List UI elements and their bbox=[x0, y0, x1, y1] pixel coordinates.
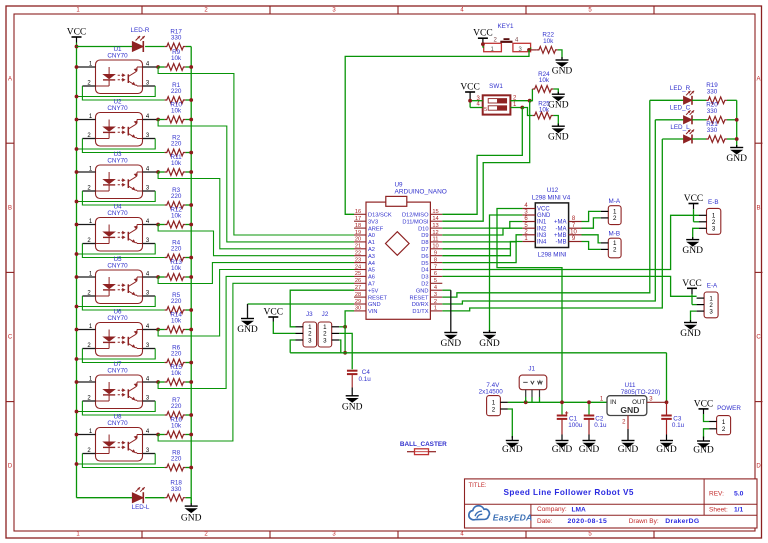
svg-text:13: 13 bbox=[432, 223, 438, 229]
svg-text:B: B bbox=[756, 206, 760, 212]
svg-text:CNY70: CNY70 bbox=[107, 263, 128, 270]
wire U1 pin3 loop to VCC bus bbox=[143, 85, 156, 87]
motor driver U12 L298 MINI V4 bbox=[522, 187, 581, 259]
svg-text:-MB: -MB bbox=[556, 240, 567, 246]
node C2 junction bbox=[587, 400, 591, 404]
node R6 junction on pull-up bus bbox=[189, 361, 193, 365]
svg-text:Date:: Date: bbox=[537, 518, 553, 525]
wire U3 pin2 loop to resistor R3 bbox=[82, 190, 95, 192]
ground at U11 bbox=[622, 440, 635, 442]
svg-text:M-A: M-A bbox=[609, 198, 621, 205]
wire sensor U7 signal to Arduino A6 bbox=[158, 276, 354, 388]
wire U4 pin1 from VCC bus bbox=[77, 224, 96, 226]
connector E-A bbox=[687, 287, 697, 289]
svg-text:2020-08-15: 2020-08-15 bbox=[568, 518, 608, 525]
indicator LED_R bbox=[650, 99, 684, 101]
svg-text:IN: IN bbox=[610, 399, 616, 406]
node U8 pin3-loop junction on VCC bus bbox=[75, 462, 79, 466]
wire U12 VCC to battery node bbox=[497, 209, 562, 403]
power net VCC (top-left) bbox=[72, 36, 82, 38]
wire U2 pin1 from VCC bus bbox=[77, 119, 96, 121]
wire SW1 pin2 to R24 and D12 bbox=[510, 100, 529, 102]
svg-text:220: 220 bbox=[171, 141, 182, 148]
svg-text:LED_L: LED_L bbox=[670, 124, 690, 131]
wire KEY1 to R22 bbox=[530, 48, 532, 50]
wire U4 pin4 to node bbox=[143, 224, 159, 226]
optocoupler U8 CNY70 bbox=[87, 414, 150, 461]
svg-text:7: 7 bbox=[434, 264, 437, 270]
node U11 OUT junction bbox=[665, 400, 669, 404]
ground at R25 bbox=[552, 125, 565, 127]
svg-text:21: 21 bbox=[355, 244, 361, 250]
voltage regulator U11 7805(TO-220) bbox=[607, 382, 660, 416]
wire U2 pin4 to node bbox=[143, 119, 159, 121]
svg-text:E-B: E-B bbox=[708, 199, 719, 206]
capacitor C2 0.1u bbox=[588, 402, 590, 415]
EasyEDA logo bbox=[469, 506, 533, 523]
svg-text:GND: GND bbox=[548, 101, 569, 111]
svg-text:GND: GND bbox=[656, 445, 677, 455]
svg-text:D3: D3 bbox=[421, 275, 428, 281]
svg-text:10k: 10k bbox=[171, 265, 182, 272]
wire LED resistors common to ground bbox=[736, 100, 738, 147]
node R20 junction bbox=[735, 118, 739, 122]
node R10 junction on pull-up bus bbox=[189, 118, 193, 122]
wire J2 pin2 to C4 bbox=[339, 333, 352, 369]
svg-text:3: 3 bbox=[323, 337, 327, 344]
node R16 junction on pull-up bus bbox=[189, 433, 193, 437]
wire U5 pin2 loop to resistor R5 bbox=[82, 295, 95, 297]
svg-text:29: 29 bbox=[355, 299, 361, 305]
wire J1 pin to node bbox=[539, 390, 541, 397]
wire U11 GND pin to ground bbox=[627, 416, 629, 430]
wire RESET/D-pin to LED_R bbox=[442, 100, 650, 297]
svg-text:A6: A6 bbox=[368, 275, 375, 281]
node U2 pin1 junction bbox=[75, 118, 79, 122]
wire sensor U8 signal to Arduino A7 bbox=[158, 283, 354, 441]
node U3 pin1 junction bbox=[75, 170, 79, 174]
svg-text:10k: 10k bbox=[171, 213, 182, 220]
svg-text:A7: A7 bbox=[368, 282, 375, 288]
resistor R22 10k bbox=[537, 47, 558, 54]
svg-text:GND: GND bbox=[441, 339, 462, 349]
wire SW1 pin1 to R25 and D11 bbox=[510, 107, 522, 109]
ground at R24 bbox=[552, 93, 565, 95]
svg-text:J3: J3 bbox=[306, 311, 313, 318]
wire U8 pin2 loop to resistor R8 bbox=[82, 453, 95, 455]
svg-text:24: 24 bbox=[355, 264, 361, 270]
svg-text:0.1u: 0.1u bbox=[594, 422, 607, 429]
svg-text:D9: D9 bbox=[421, 233, 428, 239]
node KEY1 left junction bbox=[481, 42, 485, 46]
wire POWER pin2 to ground bbox=[704, 429, 710, 439]
resistor R13 10k bbox=[158, 276, 165, 278]
svg-text:23: 23 bbox=[355, 257, 361, 263]
svg-text:3: 3 bbox=[308, 337, 312, 344]
wire D1/TX to LED_L bbox=[442, 139, 662, 311]
resistor R19 330 bbox=[706, 97, 727, 104]
svg-text:CNY70: CNY70 bbox=[107, 53, 128, 60]
svg-text:GND: GND bbox=[368, 302, 381, 308]
svg-text:Drawn By:: Drawn By: bbox=[629, 518, 659, 525]
wire E-A pin3 to ground bbox=[691, 311, 697, 322]
svg-text:3: 3 bbox=[712, 226, 716, 233]
svg-text:7805(TO-220): 7805(TO-220) bbox=[621, 389, 660, 396]
resistor R21 330 bbox=[706, 136, 727, 143]
wire Arduino GND pin29 to ground bbox=[248, 303, 355, 305]
svg-text:26: 26 bbox=[355, 278, 361, 284]
resistor R6 220 bbox=[165, 359, 186, 366]
node U5 pin3-loop junction on VCC bus bbox=[75, 305, 79, 309]
wire +MA to M-A pin 1 bbox=[582, 211, 601, 221]
svg-text:2: 2 bbox=[613, 247, 617, 254]
wire sensor U1 signal to Arduino A0 bbox=[158, 67, 354, 235]
svg-text:10k: 10k bbox=[539, 107, 550, 114]
svg-text:220: 220 bbox=[171, 351, 182, 358]
svg-text:VCC: VCC bbox=[67, 28, 87, 38]
wire VCC to J3 pin2 bbox=[273, 322, 295, 334]
svg-text:100u: 100u bbox=[568, 422, 583, 429]
resistor R12 10k bbox=[158, 224, 165, 226]
svg-text:LED_R: LED_R bbox=[670, 85, 691, 92]
wire D7 to IN4 bbox=[442, 242, 522, 249]
node VIN rail junction bbox=[343, 351, 347, 355]
connector E-B bbox=[689, 203, 699, 205]
svg-text:J2: J2 bbox=[322, 311, 329, 318]
wire U4 pin3 loop to VCC bus bbox=[143, 243, 156, 245]
svg-text:LED_C: LED_C bbox=[670, 105, 691, 112]
svg-text:15: 15 bbox=[432, 209, 438, 215]
wire battery pin1 to node bbox=[508, 401, 607, 403]
svg-text:1: 1 bbox=[434, 306, 437, 312]
svg-text:D5: D5 bbox=[421, 261, 428, 267]
svg-text:5.0: 5.0 bbox=[734, 490, 744, 497]
svg-text:RESET: RESET bbox=[368, 295, 387, 301]
svg-text:220: 220 bbox=[171, 456, 182, 463]
svg-text:2x14500: 2x14500 bbox=[479, 389, 504, 396]
microcontroller U9 ARDUINO_NANO bbox=[354, 182, 447, 320]
resistor R14 10k bbox=[158, 329, 165, 331]
svg-text:2: 2 bbox=[722, 426, 726, 433]
resistor R17 330 bbox=[165, 43, 186, 50]
svg-text:LED-L: LED-L bbox=[132, 504, 150, 511]
svg-text:A0: A0 bbox=[368, 233, 375, 239]
wire U12 GND to ground bbox=[490, 215, 523, 332]
svg-text:2: 2 bbox=[613, 215, 617, 222]
svg-text:J1: J1 bbox=[528, 366, 535, 373]
svg-text:A: A bbox=[756, 77, 760, 83]
node J2 pin1 junction bbox=[343, 325, 347, 329]
wire D5 stub to IN4 feed bbox=[442, 242, 516, 263]
resistor R18 330 bbox=[165, 494, 186, 501]
wire SW1 pin2 down to D11/MOSI bbox=[442, 101, 529, 222]
wire J2 pin3 to 5V rail bbox=[339, 340, 341, 353]
svg-text:D11/MOSI: D11/MOSI bbox=[402, 219, 429, 225]
node R2 junction on pull-up bus bbox=[189, 151, 193, 155]
power net VCC at J3 bbox=[268, 316, 278, 318]
svg-text:U9: U9 bbox=[395, 182, 404, 189]
node U4 pin3-loop junction on VCC bus bbox=[75, 252, 79, 256]
svg-text:GND: GND bbox=[548, 133, 569, 143]
svg-text:A: A bbox=[8, 77, 12, 83]
svg-text:D7: D7 bbox=[421, 247, 428, 253]
svg-text:ARDUINO_NANO: ARDUINO_NANO bbox=[395, 189, 447, 196]
optocoupler U1 CNY70 bbox=[87, 46, 150, 93]
svg-text:VCC: VCC bbox=[460, 83, 480, 93]
svg-text:E-A: E-A bbox=[707, 283, 718, 290]
svg-text:GND: GND bbox=[416, 288, 429, 294]
node U8 pin1 junction bbox=[75, 433, 79, 437]
svg-text:220: 220 bbox=[171, 193, 182, 200]
title block bbox=[465, 479, 758, 528]
svg-text:VCC: VCC bbox=[694, 399, 714, 409]
resistor R3 220 bbox=[165, 202, 186, 209]
wire VCC to SW1 pins 3,4 bbox=[469, 101, 471, 108]
svg-text:0.1u: 0.1u bbox=[672, 422, 685, 429]
svg-text:10k: 10k bbox=[171, 370, 182, 377]
wire +5V pin27 to J3 pin1 bbox=[290, 290, 354, 327]
svg-text:IN1: IN1 bbox=[537, 220, 547, 226]
svg-text:D: D bbox=[8, 464, 13, 470]
svg-text:5: 5 bbox=[484, 107, 487, 113]
wire KEY1 to D13/SCK bbox=[345, 50, 529, 214]
svg-text:D6: D6 bbox=[421, 254, 428, 260]
svg-text:+5V: +5V bbox=[368, 288, 378, 294]
svg-text:25: 25 bbox=[355, 271, 361, 277]
svg-text:GND: GND bbox=[502, 445, 523, 455]
capacitor C1 100u bbox=[561, 402, 563, 415]
svg-text:IN3: IN3 bbox=[537, 233, 547, 239]
svg-text:+MA: +MA bbox=[554, 220, 567, 226]
node R14 junction on pull-up bus bbox=[189, 328, 193, 332]
svg-text:D1/TX: D1/TX bbox=[412, 309, 428, 315]
wire J2 pin1 to VIN net bbox=[339, 326, 345, 328]
ground at Arduino pin4 bbox=[444, 332, 457, 334]
svg-text:27: 27 bbox=[355, 285, 361, 291]
node U1 pin4 junction bbox=[156, 65, 160, 69]
svg-text:220: 220 bbox=[171, 88, 182, 95]
svg-text:GND: GND bbox=[682, 246, 703, 256]
wire sensor U2 signal to Arduino A1 bbox=[158, 120, 354, 242]
node KEY1/R22 junction bbox=[527, 48, 531, 52]
node R3 junction on pull-up bus bbox=[189, 203, 193, 207]
svg-text:D0/RX: D0/RX bbox=[412, 302, 429, 308]
node U3 pin4 junction bbox=[156, 170, 160, 174]
wire U5 pin3 loop to VCC bus bbox=[143, 295, 156, 297]
wire U7 pin4 to node bbox=[143, 381, 159, 383]
node R8 junction on pull-up bus bbox=[189, 466, 193, 470]
LED-R indicator diode bbox=[77, 46, 133, 48]
resistor R4 220 bbox=[165, 254, 186, 261]
ground at C4 bbox=[346, 395, 359, 397]
svg-text:L298 MINI V4: L298 MINI V4 bbox=[532, 194, 571, 201]
svg-text:3: 3 bbox=[709, 308, 713, 315]
resistor R10 10k bbox=[158, 119, 165, 121]
svg-text:19: 19 bbox=[355, 230, 361, 236]
svg-text:U11: U11 bbox=[624, 382, 636, 389]
wire D6 stub bbox=[442, 249, 510, 256]
wire battery pin2 to ground bbox=[508, 409, 512, 438]
svg-text:BALL_CASTER: BALL_CASTER bbox=[400, 441, 447, 448]
resistor R7 220 bbox=[165, 412, 186, 419]
svg-text:LED-R: LED-R bbox=[131, 27, 150, 34]
wire -MB to M-B pin 2 bbox=[582, 242, 601, 250]
svg-text:CNY70: CNY70 bbox=[107, 210, 128, 217]
node U3 pin3-loop junction on VCC bus bbox=[75, 200, 79, 204]
resistor R5 220 bbox=[165, 307, 186, 314]
optocoupler U4 CNY70 bbox=[87, 204, 150, 251]
svg-text:A2: A2 bbox=[368, 247, 375, 253]
capacitor C3 0.1u bbox=[666, 402, 668, 415]
svg-text:CNY70: CNY70 bbox=[107, 420, 128, 427]
svg-text:D4: D4 bbox=[421, 268, 428, 274]
svg-text:20: 20 bbox=[355, 237, 361, 243]
wire U1 pin2 loop to resistor R1 bbox=[82, 85, 95, 87]
svg-text:GND: GND bbox=[693, 446, 714, 456]
svg-text:330: 330 bbox=[707, 108, 718, 115]
wire U3 pin4 to node bbox=[143, 171, 159, 173]
wire R24 to ground bbox=[553, 89, 558, 94]
wire SW1 pin1 down to D12/MISO bbox=[442, 108, 522, 215]
svg-text:10k: 10k bbox=[171, 318, 182, 325]
wire U7 pin3 loop to VCC bus bbox=[143, 400, 156, 402]
svg-text:9: 9 bbox=[434, 251, 437, 257]
svg-text:CNY70: CNY70 bbox=[107, 158, 128, 165]
svg-text:GND: GND bbox=[479, 339, 500, 349]
wire U5 pin4 to node bbox=[143, 276, 159, 278]
node R11 junction on pull-up bus bbox=[189, 170, 193, 174]
svg-text:-MA: -MA bbox=[556, 226, 567, 232]
node U2 pin4 junction bbox=[156, 118, 160, 122]
capacitor C4 0.1u bbox=[347, 370, 358, 372]
svg-text:1: 1 bbox=[722, 419, 726, 426]
resistor R25 10k bbox=[522, 108, 532, 116]
resistor R1 220 bbox=[165, 97, 186, 104]
wire U1 pin1 from VCC bus bbox=[77, 66, 96, 68]
wire sensor U4 signal to Arduino A3 bbox=[158, 225, 354, 256]
node U7 pin1 junction bbox=[75, 380, 79, 384]
svg-text:D12/MISO: D12/MISO bbox=[402, 213, 429, 219]
node U6 pin1 junction bbox=[75, 328, 79, 332]
power net VCC at KEY1 bbox=[478, 37, 488, 39]
node U6 pin4 junction bbox=[156, 328, 160, 332]
resistor R9 10k bbox=[158, 66, 165, 68]
svg-text:3V3: 3V3 bbox=[368, 219, 378, 225]
svg-text:330: 330 bbox=[707, 89, 718, 96]
svg-text:GND: GND bbox=[618, 445, 639, 455]
wire 5V rail bbox=[290, 352, 666, 354]
wire Arduino GND pin4 to ground bbox=[442, 289, 451, 291]
optocoupler U6 CNY70 bbox=[87, 309, 150, 356]
node U8 pin4 junction bbox=[156, 433, 160, 437]
node SW1 pin1 junction bbox=[520, 106, 524, 110]
node U2 pin3-loop junction on VCC bus bbox=[75, 147, 79, 151]
resistor R24 10k bbox=[530, 89, 533, 101]
svg-text:10k: 10k bbox=[171, 108, 182, 115]
wire U7 pin1 from VCC bus bbox=[77, 381, 96, 383]
optocoupler U5 CNY70 bbox=[87, 256, 150, 303]
wire VCC to POWER pin1 bbox=[704, 414, 710, 422]
svg-text:28: 28 bbox=[355, 292, 361, 298]
svg-text:GND: GND bbox=[726, 154, 747, 164]
svg-text:CNY70: CNY70 bbox=[107, 315, 128, 322]
svg-text:A5: A5 bbox=[368, 268, 375, 274]
svg-text:POWER: POWER bbox=[717, 405, 741, 412]
svg-text:IN4: IN4 bbox=[537, 240, 547, 246]
svg-text:12: 12 bbox=[432, 230, 438, 236]
connector POWER bbox=[699, 408, 709, 410]
resistor R2 220 bbox=[165, 149, 186, 156]
svg-text:GND: GND bbox=[620, 405, 639, 415]
wire U6 pin3 loop to VCC bus bbox=[143, 348, 156, 350]
svg-text:D: D bbox=[756, 464, 761, 470]
svg-text:AREF: AREF bbox=[368, 226, 384, 232]
ground at battery bbox=[506, 440, 519, 442]
node U4 pin4 junction bbox=[156, 223, 160, 227]
wire left VCC bus vertical bbox=[76, 47, 78, 498]
svg-text:5: 5 bbox=[434, 278, 437, 284]
node R5 junction on pull-up bus bbox=[189, 308, 193, 312]
ground at indicator LEDs bbox=[730, 147, 743, 149]
DIP switch SW1 bbox=[477, 83, 518, 115]
svg-text:M-B: M-B bbox=[609, 230, 621, 237]
svg-text:VCC: VCC bbox=[537, 207, 550, 213]
svg-text:DrakerDG: DrakerDG bbox=[665, 518, 699, 525]
ground for sensor pull-up bus bbox=[190, 498, 192, 504]
svg-text:VCC: VCC bbox=[473, 29, 493, 39]
svg-text:10: 10 bbox=[432, 244, 438, 250]
wire D4 to E-B pin 1 bbox=[442, 215, 699, 269]
optocoupler U3 CNY70 bbox=[87, 151, 150, 198]
svg-text:14: 14 bbox=[432, 216, 438, 222]
svg-text:GND: GND bbox=[181, 514, 202, 524]
svg-text:Sheet:: Sheet: bbox=[709, 506, 728, 513]
svg-text:D10: D10 bbox=[418, 226, 428, 232]
svg-text:VIN: VIN bbox=[368, 309, 377, 315]
wire J1 pin to node bbox=[531, 390, 533, 397]
svg-text:VCC: VCC bbox=[682, 279, 702, 289]
svg-text:16: 16 bbox=[355, 209, 361, 215]
indicator LED_C bbox=[655, 119, 683, 121]
wire U6 pin1 from VCC bus bbox=[77, 329, 96, 331]
svg-text:LMA: LMA bbox=[572, 506, 587, 513]
svg-text:2: 2 bbox=[492, 406, 496, 413]
node U1 pin3-loop junction on VCC bus bbox=[75, 95, 79, 99]
wire J3 pin3 to 5V rail bbox=[290, 340, 295, 353]
ground at C3 bbox=[660, 440, 673, 442]
svg-text:2: 2 bbox=[434, 299, 437, 305]
svg-text:U12: U12 bbox=[547, 187, 559, 194]
svg-text:L298 MINI: L298 MINI bbox=[537, 252, 566, 259]
wire U2 pin3 loop to VCC bus bbox=[143, 138, 156, 140]
wire D0/RX to LED_C bbox=[442, 120, 655, 304]
LED-L indicator diode (bottom) bbox=[77, 497, 133, 499]
svg-text:10k: 10k bbox=[543, 38, 554, 45]
ground at E-A bbox=[684, 322, 697, 324]
wire J1 pin to node bbox=[525, 390, 527, 397]
node C1 junction bbox=[560, 400, 564, 404]
wire U2 pin2 loop to resistor R2 bbox=[82, 138, 95, 140]
svg-text:220: 220 bbox=[171, 298, 182, 305]
svg-text:6: 6 bbox=[434, 271, 437, 277]
pushbutton KEY1 bbox=[484, 23, 531, 53]
svg-text:B: B bbox=[8, 206, 12, 212]
ground at POWER bbox=[697, 440, 710, 442]
wire U7 pin2 loop to resistor R7 bbox=[82, 400, 95, 402]
svg-text:GND: GND bbox=[342, 402, 363, 412]
svg-text:10k: 10k bbox=[171, 423, 182, 430]
svg-text:22: 22 bbox=[355, 251, 361, 257]
